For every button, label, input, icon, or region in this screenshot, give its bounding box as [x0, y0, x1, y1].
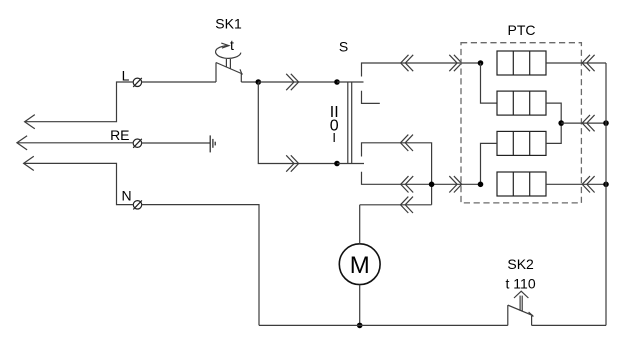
wire R2 right to mid node: [546, 103, 561, 123]
PTC resistor R1: [497, 51, 546, 75]
connector socket (row4 right): [582, 176, 594, 192]
terminal L: [122, 67, 142, 87]
wire L to SK1: [141, 81, 216, 83]
wire N to bottom bus: [142, 205, 260, 326]
ground (chassis) RE: [210, 135, 215, 152]
wire RE to ground: [141, 142, 210, 144]
connector arrow L lead: [25, 115, 35, 129]
wire SK1 to node: [241, 81, 258, 83]
node motor on bus: [357, 323, 363, 329]
wire mid node to rail: [561, 122, 606, 124]
svg-text:t 110: t 110: [506, 275, 536, 291]
switch S fixed contact bottom-lower: [362, 172, 381, 185]
wire N lead: [25, 163, 134, 204]
connector plug (row1 into PTC): [449, 55, 461, 71]
node distribution: [429, 182, 435, 188]
svg-text:M: M: [350, 252, 370, 279]
wire S top contact to PTC row1: [380, 62, 481, 64]
motor M: [339, 244, 380, 285]
wire node to S top: [258, 81, 337, 83]
connector socket (row1 left): [401, 55, 414, 71]
svg-text:PTC: PTC: [508, 22, 536, 38]
wire bottom bus left: [259, 324, 508, 326]
thermal switch SK1: [215, 16, 242, 83]
wire RE lead: [18, 142, 134, 144]
terminal RE: [110, 127, 142, 148]
PTC resistor R2: [497, 91, 546, 115]
actuator arrow SK2: [514, 291, 528, 311]
wire R1 right to rail: [546, 62, 606, 64]
wire R3 left link down: [481, 143, 498, 184]
PTC dashed enclosure: [461, 43, 581, 203]
connector socket (motor feed): [401, 197, 414, 213]
node PTC row1 left: [478, 60, 484, 66]
wire S bottom moving contact: [337, 163, 364, 165]
PTC resistor R3: [497, 131, 546, 155]
switch S position labels II 0 I: [330, 104, 339, 145]
switch S fixed contact bottom-upper: [362, 143, 381, 157]
node SK1 output: [255, 79, 261, 85]
node rail row4: [603, 182, 609, 188]
connector socket (row4 left): [401, 176, 414, 192]
connector plug (top feed): [286, 74, 298, 90]
wire motor feed: [360, 204, 432, 206]
wire bottom bus right: [532, 324, 606, 326]
connector arrow N lead: [24, 156, 34, 170]
wire row1 left link down: [481, 63, 498, 103]
connector plug (bottom feed): [286, 155, 298, 171]
wire L lead: [26, 82, 134, 122]
wire motor bottom: [359, 285, 361, 326]
wire S bottom-upper contact to node: [380, 143, 432, 205]
wire right rail: [605, 63, 607, 325]
connector socket (mid right): [582, 115, 594, 131]
node rail mid: [603, 120, 609, 126]
connector socket (row1 right): [582, 55, 594, 71]
svg-text:t: t: [230, 37, 234, 53]
wire R3 right to mid node: [546, 123, 561, 143]
svg-text:L: L: [122, 67, 130, 83]
switch S actuator bar: [348, 82, 352, 164]
wire S bottom-lower contact to PTC row4: [380, 183, 481, 185]
switch S fixed contact top-lower (stub): [362, 91, 380, 104]
node S bottom input: [334, 161, 340, 167]
node PTC mid right: [558, 120, 564, 126]
svg-text:SK1: SK1: [215, 16, 242, 32]
connector socket (mid wire): [401, 135, 414, 151]
rotation arrow with t (SK1 actuator): [216, 37, 241, 58]
terminal N: [122, 188, 142, 210]
wire motor top: [359, 205, 361, 244]
thermal switch SK2: [506, 256, 536, 325]
switch S fixed contact top-upper: [362, 63, 381, 77]
wire S top moving contact: [337, 81, 364, 83]
PTC resistor R4: [497, 172, 546, 196]
connector plug (row4 into PTC): [449, 176, 461, 192]
svg-text:RE: RE: [110, 127, 129, 143]
svg-text:SK2: SK2: [507, 256, 534, 272]
wire riser to S bottom: [258, 82, 337, 164]
node PTC row4 left: [478, 182, 484, 188]
connector arrow RE lead: [17, 136, 27, 150]
svg-text:I: I: [332, 130, 336, 145]
node S top input: [334, 79, 340, 85]
svg-text:N: N: [122, 188, 132, 204]
svg-text:S: S: [339, 39, 348, 55]
wire R4 right to rail: [546, 183, 606, 185]
